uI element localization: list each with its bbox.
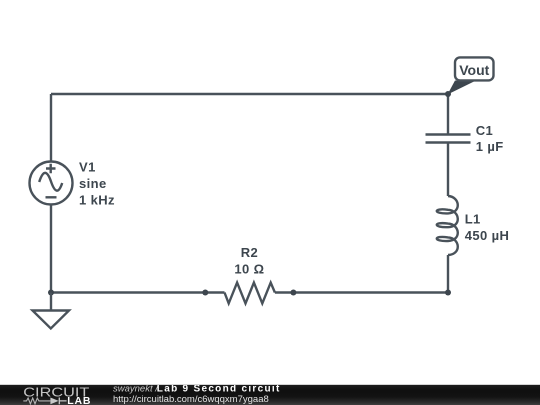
svg-text:1 µF: 1 µF <box>476 139 504 154</box>
node Vout junction <box>445 91 451 97</box>
inductor L1 <box>437 196 458 255</box>
node ground junction <box>48 290 54 296</box>
net flag Vout <box>448 57 494 94</box>
svg-text:450 µH: 450 µH <box>465 228 510 243</box>
svg-text:Vout: Vout <box>459 62 489 78</box>
wire left vertical upper <box>50 94 52 162</box>
svg-text:sine1 kHz: sine1 kHz <box>79 176 115 208</box>
wire between C1 and L1 <box>447 144 449 197</box>
junction node right of R2 <box>290 290 296 296</box>
svg-text:http://circuitlab.com/c6wqqxm7: http://circuitlab.com/c6wqqxm7ygaa8 <box>113 394 269 405</box>
wire below L1 <box>447 255 449 293</box>
wire bottom right segment <box>275 291 448 293</box>
svg-text:10 Ω: 10 Ω <box>234 261 264 276</box>
svg-text:V1: V1 <box>79 160 96 175</box>
ground <box>33 311 70 329</box>
wire right vertical upper <box>447 94 449 134</box>
svg-text:R2: R2 <box>241 245 258 260</box>
resistor R2 <box>225 283 275 304</box>
wire bottom left segment <box>51 291 225 293</box>
CircuitLab logo <box>0 385 110 405</box>
voltage source V1 <box>30 162 73 205</box>
svg-text:L1: L1 <box>465 212 481 227</box>
wire left vertical lower <box>50 205 52 293</box>
footer text <box>0 385 540 405</box>
svg-text:C1: C1 <box>476 123 493 138</box>
junction node left of R2 <box>202 290 208 296</box>
capacitor C1 <box>426 135 471 143</box>
footer bar <box>0 384 540 385</box>
node bottom right junction <box>445 290 451 296</box>
wire ground stem <box>50 293 52 311</box>
wire top horizontal <box>51 93 448 95</box>
